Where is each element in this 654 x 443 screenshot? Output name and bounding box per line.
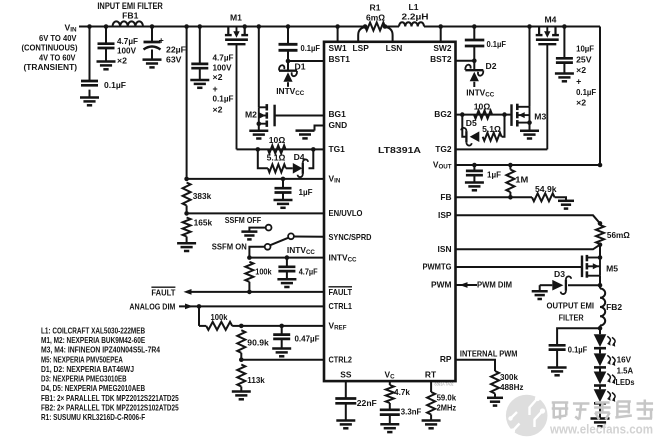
LED D8 string 3 bbox=[594, 372, 616, 386]
junction VOUT rail bbox=[598, 163, 603, 168]
switch SSFM OFF terminal bbox=[249, 225, 271, 232]
wire LED2-3 bbox=[599, 367, 601, 371]
wire SW1 pin connection bbox=[337, 27, 339, 42]
wire SW2 pin connection bbox=[440, 27, 442, 42]
svg-text:0.1µF: 0.1µF bbox=[487, 39, 507, 49]
svg-text:M5: M5 bbox=[606, 263, 618, 273]
svg-text:4.7µF: 4.7µF bbox=[213, 52, 234, 62]
svg-text:FB2: 2× PARALLEL TDK MPZ2012S1: FB2: 2× PARALLEL TDK MPZ2012S102ATD25 bbox=[41, 403, 179, 413]
pin LSN bbox=[386, 43, 403, 53]
junction BG2 right branch bbox=[502, 112, 507, 117]
svg-text:×2: ×2 bbox=[213, 72, 223, 82]
wire BG1 gate lead bbox=[275, 115, 324, 117]
junction SW1 rail bbox=[335, 24, 340, 29]
ground input 22uF bbox=[143, 60, 162, 68]
svg-text:D3: NEXPERIA PMEG3010EB: D3: NEXPERIA PMEG3010EB bbox=[41, 374, 127, 384]
wire LED3-4 bbox=[599, 386, 601, 390]
svg-text:1M: 1M bbox=[515, 174, 528, 184]
junction BST2 node bbox=[472, 58, 477, 63]
junction EN divider mid bbox=[184, 211, 189, 216]
svg-text:CTRL2: CTRL2 bbox=[329, 354, 353, 364]
wire FB pin line bbox=[456, 196, 533, 198]
title INPUT EMI FILTER bbox=[97, 1, 163, 11]
svg-text:R1: R1 bbox=[370, 3, 381, 13]
svg-text:ANALOG DIM: ANALOG DIM bbox=[129, 301, 175, 311]
svg-text:10Ω: 10Ω bbox=[474, 101, 491, 111]
resistor 165k EN divider bottom bbox=[183, 218, 213, 244]
svg-text:113k: 113k bbox=[247, 375, 265, 385]
transistor M5 PWM dimming bbox=[582, 255, 618, 278]
svg-text:1.5A: 1.5A bbox=[617, 366, 634, 376]
svg-text:FILTER: FILTER bbox=[559, 313, 585, 323]
junction BST1 cap node on rail bbox=[286, 24, 291, 29]
junction FAULT pullup bbox=[247, 290, 252, 295]
svg-text:LT8391A: LT8391A bbox=[378, 145, 421, 155]
svg-text:90.9k: 90.9k bbox=[247, 337, 269, 347]
LED D7 string 2 bbox=[594, 353, 616, 367]
capacitor 22nF soft-start bbox=[335, 398, 377, 420]
label OUTPUT EMI FILTER bbox=[547, 300, 595, 322]
resistor 56 milliohm LED sense bbox=[596, 225, 630, 244]
inductor L1 2.2uH bbox=[399, 2, 429, 27]
svg-text:FAULT: FAULT bbox=[151, 288, 176, 298]
svg-text:FB1: FB1 bbox=[122, 11, 138, 21]
ferrite bead FB1 label bbox=[122, 11, 138, 21]
wire VC pin bbox=[389, 381, 391, 385]
ground SSFM OFF bbox=[241, 232, 257, 240]
svg-text:GND: GND bbox=[329, 120, 348, 130]
diode D5 BG2 turnoff bbox=[461, 118, 479, 145]
wire M2 source to ground bbox=[258, 124, 260, 131]
diode D2 bootstrap from INTVCC bbox=[465, 61, 496, 87]
resistor 113k CTRL divider bottom bbox=[237, 365, 265, 392]
junction VOUT 1M bbox=[508, 163, 513, 168]
label INTVCC for D2 bbox=[466, 88, 495, 99]
wire ISN pin line bbox=[456, 245, 601, 250]
pin VREF bbox=[329, 321, 347, 332]
transistor M4 boost sync switch bbox=[536, 14, 559, 149]
svg-text:4.7µF: 4.7µF bbox=[299, 267, 318, 277]
svg-text:INTERNAL PWM: INTERNAL PWM bbox=[460, 348, 518, 358]
label ANALOG DIM input bbox=[129, 301, 175, 311]
svg-text:×2: ×2 bbox=[117, 55, 127, 65]
svg-text:LEDs: LEDs bbox=[616, 377, 635, 387]
svg-text:CTRL1: CTRL1 bbox=[329, 301, 353, 311]
svg-text:0.47µF: 0.47µF bbox=[295, 334, 320, 344]
svg-text:SW1: SW1 bbox=[329, 43, 347, 53]
ground input 0.1uF bbox=[80, 98, 99, 106]
wire FAULT line bbox=[188, 291, 324, 293]
pin RP bbox=[440, 354, 452, 364]
junction VREF cap bbox=[279, 324, 284, 329]
svg-text:BG1: BG1 bbox=[329, 109, 347, 119]
junction M2 drain node SW1 bbox=[257, 24, 262, 29]
wire TG2 line bbox=[456, 148, 548, 150]
svg-text:4.7µF: 4.7µF bbox=[117, 36, 138, 46]
transistor M1 buck high-side bbox=[225, 13, 248, 150]
svg-text:383k: 383k bbox=[193, 191, 212, 201]
junction BST1 node bbox=[286, 59, 291, 64]
pin SYNC/SPRD bbox=[329, 232, 372, 242]
svg-text:LSP: LSP bbox=[353, 43, 370, 53]
capacitor 0.47uF VREF bbox=[273, 326, 319, 349]
svg-text:×2: ×2 bbox=[213, 104, 223, 114]
svg-text:0.1µF: 0.1µF bbox=[104, 80, 126, 90]
resistor 5.1 ohm TG1 bbox=[267, 153, 286, 173]
wire divider tap down to VIN pin line bbox=[186, 27, 188, 179]
pin BG1 bbox=[329, 109, 347, 119]
label SSFM OFF bbox=[225, 215, 262, 225]
svg-text:FB2: FB2 bbox=[606, 302, 622, 312]
svg-text:PWM: PWM bbox=[431, 280, 451, 290]
wire PWM DIM input bbox=[456, 284, 478, 286]
svg-text:1µF: 1µF bbox=[299, 187, 313, 197]
capacitor 1uF VOUT bbox=[466, 165, 501, 183]
svg-text:PWMTG: PWMTG bbox=[423, 262, 452, 272]
ground 113k bbox=[232, 392, 251, 400]
svg-text:M3, M4: INFINEON IPZ40N04S5L-7: M3, M4: INFINEON IPZ40N04S5L-7R4 bbox=[41, 345, 160, 355]
svg-text:+: + bbox=[159, 35, 164, 45]
wire BG2 line bbox=[456, 114, 512, 116]
node VIN input label bbox=[65, 22, 77, 33]
svg-text:63V: 63V bbox=[166, 54, 182, 64]
pin EN/UVLO bbox=[329, 208, 363, 218]
svg-text:3.3nF: 3.3nF bbox=[401, 406, 422, 416]
svg-text:SYNC/SPRD: SYNC/SPRD bbox=[329, 232, 372, 242]
wire output rail right corner down bbox=[599, 27, 601, 166]
wire FB2 to LED string bbox=[599, 326, 601, 335]
svg-text:100V: 100V bbox=[213, 63, 232, 73]
LED D9 string 4 bbox=[594, 389, 616, 403]
wire ANALOG DIM down branch bbox=[199, 306, 206, 326]
svg-text:0.1µF: 0.1µF bbox=[576, 87, 596, 97]
resistor 90.9k CTRL divider bbox=[237, 330, 269, 360]
wire VIN input rail bbox=[79, 26, 365, 28]
LED D6 string 1 bbox=[594, 334, 616, 348]
pin PWM bbox=[431, 280, 451, 290]
ground EN divider bbox=[177, 243, 196, 251]
pin FB bbox=[440, 192, 451, 202]
wire M3 source to ground bbox=[529, 123, 531, 131]
wire M5 source down bbox=[599, 276, 601, 289]
capacitor 1uF VIN bypass bbox=[275, 179, 313, 200]
wire TG1 line bbox=[237, 148, 325, 150]
svg-text:5.1Ω: 5.1Ω bbox=[482, 124, 501, 134]
watermark text dianzifashaoyou bbox=[552, 400, 653, 420]
svg-text:M3: M3 bbox=[534, 111, 546, 121]
wire VREF line bbox=[241, 325, 324, 327]
wire SYNC/SPRD pin bbox=[294, 236, 324, 238]
diode D1 bootstrap from INTVCC bbox=[279, 61, 306, 87]
wire LED cap branch bbox=[557, 328, 600, 345]
svg-text:ISN: ISN bbox=[438, 244, 452, 254]
svg-text:D3: D3 bbox=[554, 269, 565, 279]
wire M3 drain to SW2 rail bbox=[529, 27, 531, 107]
ground VC network bbox=[380, 424, 399, 432]
capacitor 0.1uF input bbox=[81, 27, 126, 98]
wire CTRL1 line bbox=[179, 305, 324, 307]
wire SS pin bbox=[345, 381, 347, 398]
svg-text:SW2: SW2 bbox=[433, 43, 451, 53]
svg-text:R1: SUSUMU KRL3216D-C-R006-F: R1: SUSUMU KRL3216D-C-R006-F bbox=[41, 412, 145, 422]
svg-text:22nF: 22nF bbox=[357, 398, 377, 408]
svg-text:EN/UVLO: EN/UVLO bbox=[329, 208, 363, 218]
svg-text:6mΩ: 6mΩ bbox=[366, 12, 385, 22]
svg-text:BG2: BG2 bbox=[434, 109, 452, 119]
diode D3 catch bbox=[540, 269, 600, 294]
pin VIN bbox=[329, 174, 341, 185]
svg-text:PWM DIM: PWM DIM bbox=[477, 279, 512, 289]
switch SYNC terminal bbox=[288, 233, 294, 239]
ground M3 source bbox=[520, 131, 539, 139]
pin BST1 bbox=[329, 54, 351, 64]
ground bulk cap bbox=[190, 80, 209, 88]
svg-text:300k: 300k bbox=[500, 372, 518, 382]
svg-text:ISP: ISP bbox=[438, 210, 452, 220]
resistor 10 ohm BG2 gate bbox=[474, 101, 492, 118]
resistor 100k ANALOG DIM bbox=[206, 312, 241, 330]
op-amp U1 LT8391A IC body bbox=[324, 42, 456, 381]
svg-text:10Ω: 10Ω bbox=[269, 135, 286, 145]
wire VOUT pin line bbox=[456, 164, 601, 166]
wire PWMTG gate line bbox=[456, 266, 583, 268]
junction VIN divider bbox=[184, 177, 189, 182]
wire VIN pin line bbox=[187, 178, 324, 180]
ground D3 anode bbox=[532, 291, 548, 299]
capacitor 10uF 25V x2 + 0.1uF x2 output bbox=[556, 27, 596, 108]
wire INTVCC line bbox=[249, 257, 324, 259]
junction VIN 1uF bbox=[281, 177, 286, 182]
pin SW2 bbox=[433, 43, 451, 53]
wire rail FB1 to M1 bbox=[143, 26, 228, 28]
junction BG2 left branch bbox=[460, 112, 465, 117]
wire BG2 turnoff branch bbox=[462, 115, 504, 137]
svg-text:100k: 100k bbox=[255, 267, 272, 277]
pin CTRL1 bbox=[329, 301, 353, 311]
resistor 5.1 ohm BG2 bbox=[482, 124, 502, 141]
label SSFM ON bbox=[212, 242, 247, 252]
svg-text:FB: FB bbox=[440, 192, 451, 202]
wire RT pin bbox=[430, 381, 432, 392]
transistor M2 buck low-side bbox=[245, 104, 275, 127]
wire R1 to L1 bbox=[385, 26, 399, 28]
junction LED filter cap node bbox=[598, 326, 603, 331]
label INTVCC node bbox=[287, 245, 316, 256]
label 16V 1.5A LEDs bbox=[616, 354, 635, 387]
wire D3 anode to ground bbox=[539, 285, 541, 291]
pin VOUT bbox=[433, 160, 452, 171]
wire L1 to output rail bbox=[424, 26, 600, 28]
ground M2 source bbox=[249, 131, 268, 139]
svg-text:SSFM ON: SSFM ON bbox=[212, 242, 247, 252]
junction M5 drain bbox=[598, 255, 603, 260]
ground RP resistor bbox=[487, 398, 503, 406]
svg-text:100V: 100V bbox=[117, 46, 136, 56]
wire BST2 pin bbox=[456, 60, 475, 62]
svg-text:SS: SS bbox=[340, 369, 352, 379]
svg-text:RT: RT bbox=[425, 369, 437, 379]
junction R1 right LSN bbox=[383, 24, 388, 29]
capacitor 3.3nF compensation bbox=[380, 403, 422, 424]
svg-text:488Hz: 488Hz bbox=[500, 382, 524, 392]
junction input cap 4.7uF node bbox=[104, 24, 109, 29]
wire BST1 pin bbox=[288, 60, 324, 62]
svg-text:RP: RP bbox=[440, 354, 452, 364]
wire ISP pin line bbox=[456, 215, 601, 223]
pin LSP bbox=[353, 43, 370, 53]
svg-text:+: + bbox=[576, 76, 581, 86]
svg-text:165k: 165k bbox=[194, 218, 213, 228]
junction ISP sense top bbox=[598, 221, 603, 226]
svg-text:TG1: TG1 bbox=[329, 144, 346, 154]
ground GND pin bbox=[296, 126, 325, 139]
junction BST2 cap rail bbox=[472, 24, 477, 29]
svg-text:4.7k: 4.7k bbox=[394, 387, 410, 397]
junction M3 source bbox=[527, 120, 532, 125]
pin SW1 bbox=[329, 43, 347, 53]
ground SS cap bbox=[336, 421, 355, 429]
ground LED filter cap bbox=[548, 368, 567, 376]
ground VREF cap bbox=[272, 349, 291, 357]
ground output 10uF bbox=[555, 74, 574, 82]
watermark logo circle bbox=[506, 395, 548, 437]
svg-text:1µF: 1µF bbox=[487, 169, 501, 179]
label LT8391A bbox=[378, 145, 421, 155]
switch SSFM ON terminal bbox=[249, 244, 270, 258]
svg-text:BST1: BST1 bbox=[329, 54, 351, 64]
svg-text:M2: M2 bbox=[245, 110, 257, 120]
svg-text:2.2µH: 2.2µH bbox=[402, 11, 429, 21]
junction D3 catch node bbox=[598, 283, 603, 288]
svg-text:5.1Ω: 5.1Ω bbox=[267, 153, 286, 163]
junction output cap 10uF rail bbox=[562, 24, 567, 29]
junction FB node bbox=[508, 195, 513, 200]
capacitor 22uF 63V polarized bbox=[144, 27, 187, 65]
wire LSN kelvin stub bbox=[386, 27, 393, 42]
pin VC bbox=[385, 369, 396, 380]
capacitor 0.1uF BST1 bootstrap bbox=[279, 27, 321, 62]
svg-text:(TRANSIENT): (TRANSIENT) bbox=[24, 62, 78, 72]
junction M3 drain rail bbox=[527, 24, 532, 29]
svg-text:16V: 16V bbox=[617, 354, 632, 364]
svg-text:TG2: TG2 bbox=[435, 144, 452, 154]
switch arm SYNC/SPRD bbox=[270, 238, 288, 246]
junction ANALOG DIM branch bbox=[197, 304, 202, 309]
junction bulk cap node bbox=[198, 24, 203, 29]
pin GND bbox=[329, 120, 348, 130]
ground RT resistor bbox=[422, 421, 441, 429]
resistor 59.0k 2MHz RT bbox=[427, 392, 456, 421]
svg-text:59.0k: 59.0k bbox=[437, 393, 457, 403]
svg-text:www.elecfans.com: www.elecfans.com bbox=[549, 422, 653, 436]
svg-text:4V TO 60V: 4V TO 60V bbox=[39, 52, 76, 62]
svg-text:FAULT: FAULT bbox=[329, 287, 353, 297]
arrow PWM DIM input bbox=[460, 282, 468, 288]
svg-text:D4, D5: NEXPERIA PMEG2010AEB: D4, D5: NEXPERIA PMEG2010AEB bbox=[41, 383, 145, 393]
svg-text:M5: NEXPERIA PMV50EPEA: M5: NEXPERIA PMV50EPEA bbox=[41, 354, 123, 364]
pin BST2 bbox=[430, 54, 452, 64]
pin TG2 bbox=[435, 144, 452, 154]
junction CTRL2 divider bbox=[239, 357, 244, 362]
resistor R1 6 milliohm sense bbox=[365, 3, 385, 31]
svg-text:25V: 25V bbox=[576, 55, 592, 65]
svg-text:×2: ×2 bbox=[576, 65, 586, 75]
svg-text:56mΩ: 56mΩ bbox=[607, 230, 630, 240]
wire CTRL2 line bbox=[241, 359, 324, 361]
transistor M3 boost switch bbox=[512, 104, 547, 127]
svg-text:D1, D2: NEXPERIA BAT46WJ: D1, D2: NEXPERIA BAT46WJ bbox=[41, 364, 134, 374]
svg-text:M1, M2: NEXPERIA BUK9M42-60E: M1, M2: NEXPERIA BUK9M42-60E bbox=[41, 335, 146, 345]
capacitor 4.7uF 100V x2 + 0.1uF x2 bulk bbox=[191, 27, 233, 115]
junction M1 source node bbox=[242, 24, 247, 29]
resistor 1M feedback top bbox=[506, 165, 528, 197]
label INTVCC for D1 bbox=[276, 86, 305, 97]
pin SS bbox=[340, 369, 352, 379]
arrow FAULT output bbox=[184, 289, 192, 295]
junction INTVCC pulldown bbox=[247, 255, 252, 260]
svg-text:OUTPUT EMI: OUTPUT EMI bbox=[547, 300, 595, 310]
resistor 10 ohm TG1 gate bbox=[268, 135, 286, 153]
label 6V TO 40V (CONTINUOUS) 4V TO 60V (TRANSIENT) bbox=[22, 33, 78, 72]
resistor 100k FAULT pullup bbox=[245, 262, 271, 292]
svg-text:8391A TA02: 8391A TA02 bbox=[435, 382, 455, 387]
svg-text:22µF: 22µF bbox=[166, 44, 186, 54]
svg-text:D2: D2 bbox=[486, 61, 497, 71]
svg-text:10µF: 10µF bbox=[576, 44, 594, 54]
resistor 54.9k feedback bottom bbox=[532, 184, 566, 201]
wire LSP kelvin stub bbox=[358, 27, 365, 42]
pin RT bbox=[425, 369, 437, 379]
arrow ANALOG DIM input bbox=[185, 304, 193, 310]
svg-text:FB1: 2× PARALLEL TDK MPZ2012S2: FB1: 2× PARALLEL TDK MPZ2012S221ATD25 bbox=[41, 393, 179, 403]
svg-text:6V TO 40V: 6V TO 40V bbox=[39, 33, 77, 43]
junction SW2 rail bbox=[438, 24, 443, 29]
svg-text:INPUT EMI FILTER: INPUT EMI FILTER bbox=[97, 1, 163, 11]
svg-text:L1: COILCRAFT XAL5030-222MEB: L1: COILCRAFT XAL5030-222MEB bbox=[41, 325, 145, 335]
diode D4 TG1 turnoff bbox=[286, 152, 308, 177]
resistor 383k EN divider top bbox=[183, 183, 212, 214]
wire EN/UVLO line bbox=[187, 212, 324, 214]
junction EN divider tap bbox=[184, 24, 189, 29]
junction TG1 left branch bbox=[255, 147, 260, 152]
label INTERNAL PWM bbox=[460, 348, 518, 358]
svg-text:D1: D1 bbox=[295, 61, 306, 71]
svg-text:SSFM OFF: SSFM OFF bbox=[225, 215, 262, 225]
pin ISP bbox=[438, 210, 452, 220]
resistor 300k 488Hz RP bbox=[491, 371, 524, 398]
junction VREF divider top bbox=[239, 324, 244, 329]
svg-text:2MHz: 2MHz bbox=[437, 403, 457, 413]
pin ISN bbox=[438, 244, 452, 254]
svg-text:BST2: BST2 bbox=[430, 54, 452, 64]
ground INTVCC cap bbox=[277, 279, 296, 287]
junction input cap 22uF node bbox=[150, 24, 155, 29]
junction input cap 0.1uF node bbox=[87, 24, 92, 29]
junction M2 source-body bbox=[257, 121, 262, 126]
svg-text:100k: 100k bbox=[211, 312, 228, 322]
label FAULT output bbox=[151, 287, 176, 297]
pin INTVCC bbox=[329, 252, 358, 263]
pin BG2 bbox=[434, 109, 452, 119]
pin TG1 bbox=[329, 144, 346, 154]
svg-text:×2: ×2 bbox=[576, 97, 586, 107]
svg-text:M4: M4 bbox=[545, 14, 557, 24]
pin PWMTG bbox=[423, 262, 452, 272]
wire LED1-2 bbox=[599, 348, 601, 353]
ground VIN 1uF bbox=[274, 200, 293, 208]
capacitor 0.1uF BST2 bootstrap bbox=[465, 27, 506, 61]
label figure ref bbox=[435, 382, 455, 387]
